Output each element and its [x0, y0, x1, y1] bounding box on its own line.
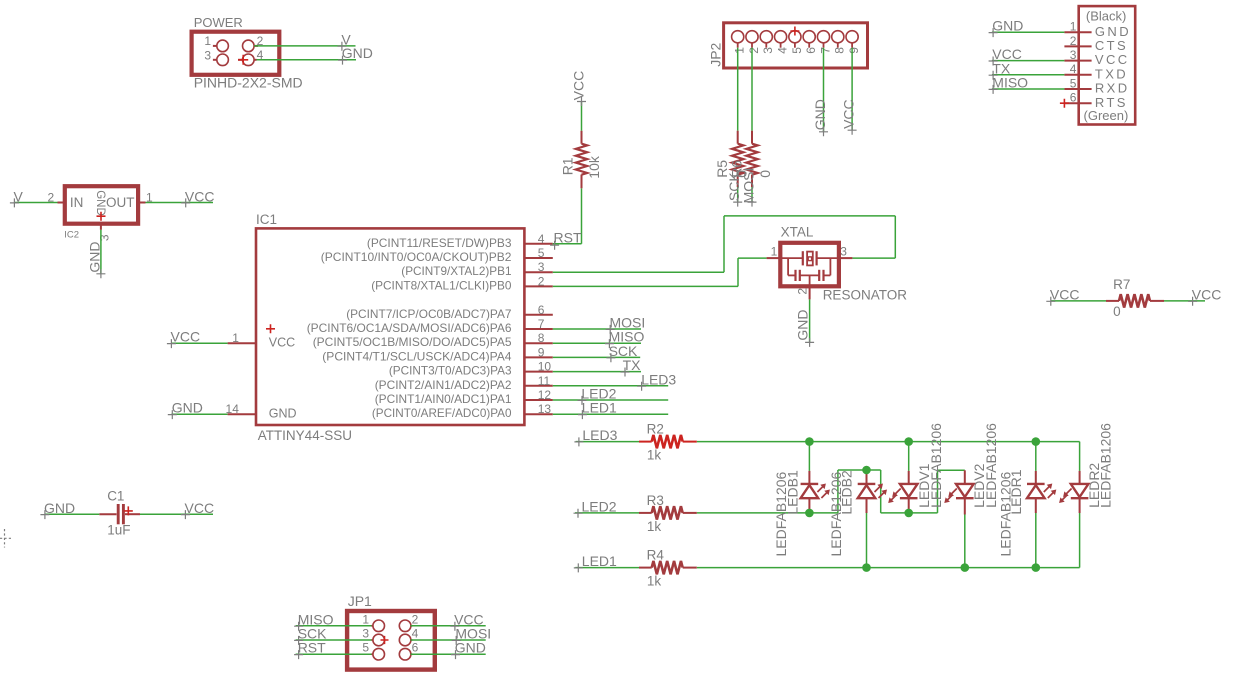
- net label GND below JP2: [812, 99, 828, 136]
- junction LED1/LEDV2: [961, 563, 970, 572]
- junction LED2/LEDB1: [805, 509, 814, 518]
- svg-text:4: 4: [538, 232, 545, 246]
- net label VCC at IC1: [167, 329, 200, 348]
- wire from JP2 pin 2 to R6: [751, 48, 753, 131]
- wire from JP2 pin 1 to R5: [737, 48, 739, 131]
- svg-text:6: 6: [412, 641, 419, 655]
- IC2 pin 2 (IN): [48, 190, 65, 204]
- wire net V from POWER pin 2: [254, 45, 355, 47]
- svg-text:LED3: LED3: [582, 427, 617, 443]
- svg-text:RST: RST: [298, 640, 326, 656]
- svg-text:3: 3: [204, 48, 211, 62]
- svg-text:R1: R1: [559, 157, 575, 175]
- wire net V to IC2 pin 2: [14, 202, 57, 204]
- svg-text:MOSI: MOSI: [741, 168, 757, 204]
- svg-text:GND: GND: [172, 400, 203, 416]
- svg-text:(PCINT2/AIN1/ADC2)PA2: (PCINT2/AIN1/ADC2)PA2: [375, 378, 512, 392]
- wire net VCC to FTDI pin 3: [992, 60, 1065, 62]
- JP2 pin 4: [775, 31, 790, 54]
- svg-text:GND: GND: [44, 500, 75, 516]
- JP1 pin 4: [399, 627, 418, 646]
- sheet origin cross: [0, 529, 12, 548]
- junction LED3/LEDB1: [805, 437, 814, 446]
- svg-text:6: 6: [1070, 91, 1077, 105]
- resistor R4: [639, 548, 697, 589]
- svg-text:1uF: 1uF: [107, 523, 130, 538]
- svg-text:3: 3: [1070, 48, 1077, 62]
- svg-text:OUT: OUT: [106, 195, 135, 210]
- svg-text:3: 3: [840, 245, 847, 259]
- svg-text:3: 3: [538, 260, 545, 274]
- net label LED1 at IC1: [578, 400, 617, 419]
- POWER origin cross: [238, 55, 248, 65]
- junction LED1/LEDR1: [1032, 563, 1041, 572]
- LED LEDV1: [888, 423, 944, 513]
- resistor R6: [728, 131, 773, 187]
- IC2 pin 1 (OUT): [138, 190, 153, 204]
- svg-text:POWER: POWER: [194, 15, 243, 30]
- net label LED1 at rail: [574, 553, 617, 572]
- POWER pin 2: [243, 34, 264, 52]
- JP2 pin 8: [832, 31, 847, 54]
- wire net GND to IC1 pin 14: [171, 413, 227, 415]
- svg-text:(PCINT10/INT0/OC0A/CKOUT)PB2: (PCINT10/INT0/OC0A/CKOUT)PB2: [321, 250, 512, 264]
- JP1 pin 5: [362, 641, 384, 660]
- net label VCC left of R7: [1046, 286, 1079, 305]
- svg-text:6: 6: [804, 47, 818, 54]
- IC1 pin 8 PA5: [313, 331, 553, 349]
- IC1 pin 14 GND: [226, 402, 256, 416]
- svg-text:9: 9: [538, 345, 545, 359]
- svg-text:R3: R3: [647, 493, 664, 508]
- JP2 origin cross: [790, 27, 799, 36]
- LED LEDR2: [1059, 423, 1113, 568]
- IC1 pin 2 PB0: [371, 274, 553, 292]
- svg-text:VCC: VCC: [269, 336, 295, 350]
- svg-text:5: 5: [538, 246, 545, 260]
- net label RST at JP1: [294, 640, 326, 659]
- svg-text:8: 8: [538, 331, 545, 345]
- svg-text:LED1: LED1: [582, 553, 617, 569]
- net label SCK below R5: [726, 172, 742, 207]
- svg-text:0: 0: [757, 170, 773, 178]
- svg-text:1: 1: [1070, 20, 1077, 34]
- net label MISO: [605, 329, 645, 348]
- wire net GND from JP1 pin 6: [411, 653, 486, 655]
- svg-text:LED3: LED3: [641, 371, 676, 387]
- wire net LED1 from IC1 pin 13: [553, 413, 668, 415]
- wire net VCC right of R7: [1164, 300, 1205, 302]
- net label GND below IC2: [86, 241, 105, 278]
- JP2 pin 2: [746, 31, 761, 54]
- LED LEDV2: [944, 423, 999, 568]
- net label VCC below JP2: [841, 99, 857, 134]
- junction LED3/LEDR1: [1032, 437, 1041, 446]
- svg-text:2: 2: [538, 274, 545, 288]
- POWER pin 3: [204, 48, 228, 65]
- LED LEDB2: [828, 470, 887, 568]
- wire net LED2 from IC1 pin 12: [553, 399, 668, 401]
- svg-text:LEDB2: LEDB2: [839, 470, 855, 515]
- svg-text:9: 9: [847, 47, 861, 54]
- net label GND below XTAL: [795, 309, 814, 346]
- capacitor C1: [99, 489, 140, 538]
- wire net MISO to FTDI pin 5: [992, 88, 1065, 90]
- svg-text:1: 1: [362, 612, 369, 626]
- svg-text:C1: C1: [107, 489, 124, 504]
- svg-text:(PCINT8/XTAL1/CLKI)PB0: (PCINT8/XTAL1/CLKI)PB0: [371, 278, 512, 292]
- JP2 pin 3: [760, 31, 775, 54]
- wire net GND from JP2 pin 7: [823, 48, 825, 132]
- wire net SCK to JP1 pin 3: [296, 639, 372, 641]
- svg-text:GND: GND: [269, 406, 297, 420]
- svg-text:VCC: VCC: [1095, 52, 1130, 67]
- svg-text:(PCINT4/T1/SCL/USCK/ADC4)PA4: (PCINT4/T1/SCL/USCK/ADC4)PA4: [322, 349, 512, 363]
- wire net SCK from IC1 pin 9: [553, 356, 640, 358]
- junction LED2/LEDV1: [904, 509, 913, 518]
- wire net TX from IC1 pin 10: [553, 371, 641, 373]
- svg-text:XTAL: XTAL: [781, 224, 814, 239]
- svg-text:3: 3: [362, 627, 369, 641]
- wire net LED1 rail: [575, 567, 1079, 569]
- wire net RST to JP1 pin 5: [296, 653, 372, 655]
- svg-text:IN: IN: [70, 195, 84, 210]
- wire net LED3 from IC1 pin 11: [553, 385, 668, 387]
- net label GND at POWER: [338, 45, 373, 65]
- LED LEDB1: [773, 442, 830, 557]
- net label GND at C1: [40, 500, 75, 519]
- svg-text:R4: R4: [647, 548, 665, 563]
- svg-text:10: 10: [538, 360, 552, 374]
- wire net MISO to JP1 pin 1: [296, 625, 372, 627]
- svg-text:1k: 1k: [647, 448, 662, 463]
- net label MISO at JP1: [294, 611, 333, 630]
- wire below R6: [751, 187, 753, 202]
- svg-text:1: 1: [232, 331, 239, 345]
- JP1 pin 2: [399, 612, 418, 631]
- net label RST: [550, 229, 582, 249]
- FTDI pin 5 RXD: [1064, 76, 1129, 95]
- JP2 pin 5: [789, 31, 804, 54]
- svg-text:1: 1: [771, 245, 778, 259]
- junction LED1/LEDB2: [862, 563, 871, 572]
- svg-text:5: 5: [1070, 76, 1077, 90]
- net label VCC above R1: [571, 71, 587, 106]
- wire net VCC from IC2 pin 1: [146, 202, 214, 204]
- svg-text:2: 2: [1070, 34, 1077, 48]
- svg-text:5: 5: [362, 641, 369, 655]
- svg-text:5: 5: [790, 47, 804, 54]
- net label MOSI below R6: [741, 168, 757, 207]
- XTAL crystal symbol: [780, 251, 839, 265]
- svg-text:(PCINT6/OC1A/SDA/MOSI/ADC6)PA6: (PCINT6/OC1A/SDA/MOSI/ADC6)PA6: [307, 321, 512, 335]
- wire net TX to FTDI pin 4: [992, 74, 1065, 76]
- net label VCC at FTDI: [989, 46, 1022, 65]
- JP1 pin 3: [362, 627, 384, 646]
- wire net MOSI from IC1 pin 7: [553, 328, 641, 330]
- wire net MOSI from JP1 pin 4: [411, 639, 486, 641]
- svg-text:(PCINT7/ICP/OC0B/ADC7)PA7: (PCINT7/ICP/OC0B/ADC7)PA7: [346, 307, 512, 321]
- net label SCK at JP1: [294, 626, 327, 645]
- net label GND at JP1: [451, 640, 486, 659]
- svg-text:7: 7: [538, 317, 545, 331]
- wire net GND from POWER pin 4: [257, 59, 357, 61]
- svg-text:1: 1: [733, 47, 747, 54]
- JP2 pin 9: [846, 31, 861, 54]
- svg-text:(Green): (Green): [1084, 108, 1129, 123]
- wire net XTAL1 from IC1 pin 2 to resonator pin 1: [553, 258, 767, 286]
- svg-text:R2: R2: [647, 422, 664, 437]
- net label VCC at JP1: [450, 611, 483, 630]
- svg-text:1k: 1k: [647, 574, 662, 589]
- wire net MISO from IC1 pin 8: [553, 342, 641, 344]
- IC1 pin 12 PA1: [375, 388, 553, 406]
- net label VCC at IC2: [181, 188, 214, 207]
- wire net VCC right of C1: [140, 513, 213, 515]
- net label V at IC2: [10, 188, 24, 207]
- net label LED3 at IC1: [637, 371, 676, 390]
- svg-text:LEDFAB1206: LEDFAB1206: [928, 423, 944, 508]
- FTDI serial connector (top right): [1079, 6, 1136, 124]
- wire net VCC left of R7: [1051, 300, 1106, 302]
- wire net VCC from JP1 pin 2: [411, 625, 486, 627]
- power header JP POWER (PINHD-2X2-SMD): [192, 15, 280, 75]
- JP1 pin 1: [362, 612, 384, 631]
- net label LED2 at IC1: [578, 386, 617, 405]
- svg-text:GND: GND: [992, 18, 1023, 34]
- wire below R5: [737, 187, 739, 202]
- net label SCK: [606, 343, 638, 362]
- IC1 pin 6 PA7: [346, 303, 553, 321]
- net label TX at FTDI: [989, 60, 1011, 79]
- IC1 VCC and GND pin names inside: [269, 336, 297, 421]
- svg-text:JP2: JP2: [708, 42, 724, 66]
- svg-text:(PCINT1/AIN0/ADC1)PA1: (PCINT1/AIN0/ADC1)PA1: [375, 392, 512, 406]
- net label VCC right of R7: [1188, 286, 1221, 305]
- wire net VCC above R1: [581, 101, 583, 131]
- JP1 pin 6: [399, 641, 418, 660]
- XTAL pin 1: [767, 245, 781, 259]
- svg-text:10k: 10k: [586, 155, 602, 179]
- svg-text:LEDR1: LEDR1: [1008, 469, 1024, 514]
- wire net RST from IC1 pin 4: [553, 188, 582, 244]
- svg-text:LEDB1: LEDB1: [785, 470, 801, 515]
- wire net LED3 rail: [576, 441, 1080, 443]
- POWER pin 4: [238, 48, 264, 66]
- IC1 pin 5 PB2: [321, 246, 553, 264]
- svg-text:RTS: RTS: [1095, 95, 1128, 110]
- net label TX: [621, 357, 642, 376]
- resistor R1: [559, 131, 602, 189]
- FTDI pin 4 TXD: [1064, 62, 1128, 81]
- connector JP2: [708, 23, 868, 68]
- svg-text:VCC: VCC: [171, 329, 201, 345]
- resonator XTAL: [780, 224, 907, 302]
- wire net LED2 rail with jogs: [575, 470, 965, 513]
- XTAL internal capacitors to pin 2: [788, 258, 830, 286]
- svg-text:3: 3: [761, 47, 775, 54]
- wire net GND to FTDI pin 1: [992, 31, 1065, 33]
- svg-text:VCC: VCC: [185, 188, 215, 204]
- svg-text:12: 12: [538, 388, 552, 402]
- svg-text:VCC: VCC: [1192, 286, 1222, 302]
- net label MOSI: [606, 315, 646, 334]
- net label MISO at FTDI: [989, 75, 1029, 94]
- wire net VCC to IC1 pin 1: [171, 342, 228, 344]
- svg-text:VCC: VCC: [841, 99, 857, 129]
- resistor R2: [639, 422, 697, 463]
- svg-text:7: 7: [818, 47, 832, 54]
- svg-text:VCC: VCC: [571, 71, 587, 101]
- svg-text:PINHD-2X2-SMD: PINHD-2X2-SMD: [194, 75, 303, 91]
- microcontroller IC1 ATTINY44-SSU: [256, 212, 524, 443]
- svg-text:4: 4: [1070, 62, 1077, 76]
- IC1 pin 13 PA0: [372, 402, 553, 420]
- IC1 pin 10 PA3: [389, 360, 553, 378]
- svg-text:(PCINT11/RESET/DW)PB3: (PCINT11/RESET/DW)PB3: [367, 236, 512, 250]
- JP2 pin 1: [732, 31, 747, 54]
- net label GND at FTDI: [989, 18, 1024, 37]
- IC1 pin 11 PA2: [375, 374, 553, 392]
- svg-text:JP1: JP1: [348, 593, 372, 609]
- svg-text:11: 11: [538, 374, 551, 388]
- junction LED3/LEDV1: [904, 437, 913, 446]
- svg-text:GND: GND: [94, 190, 106, 216]
- net label VCC at C1: [181, 500, 214, 519]
- voltage regulator IC2: [64, 186, 138, 241]
- svg-text:1k: 1k: [647, 519, 662, 534]
- svg-text:8: 8: [833, 47, 847, 54]
- svg-text:RXD: RXD: [1095, 81, 1130, 96]
- IC1 pin 7 PA6: [307, 317, 553, 335]
- resistor R3: [639, 493, 697, 534]
- svg-text:LEDFAB1206: LEDFAB1206: [1097, 423, 1113, 508]
- svg-text:IC2: IC2: [64, 230, 79, 241]
- svg-text:GND: GND: [812, 99, 828, 130]
- C1 origin cross: [124, 506, 133, 515]
- FTDI pin 6 RTS: [1064, 91, 1127, 110]
- svg-text:(PCINT5/OC1B/MISO/DO/ADC5)PA5: (PCINT5/OC1B/MISO/DO/ADC5)PA5: [313, 335, 512, 349]
- svg-text:VCC: VCC: [185, 500, 215, 516]
- junction LED2/LEDB2: [862, 466, 871, 475]
- JP2 pin 6: [803, 31, 818, 54]
- svg-text:(Black): (Black): [1086, 9, 1126, 24]
- XTAL pin 3: [839, 245, 853, 259]
- svg-text:2: 2: [795, 288, 809, 295]
- svg-text:(PCINT9/XTAL2)PB1: (PCINT9/XTAL2)PB1: [401, 264, 512, 278]
- connector JP1 (ISP header): [347, 593, 435, 670]
- svg-text:13: 13: [538, 402, 552, 416]
- IC2 pin 3 (GND): [98, 224, 112, 241]
- FTDI pin 3 VCC: [1064, 48, 1129, 67]
- IC1 pin 1 VCC: [228, 331, 256, 345]
- net label GND at IC1: [168, 400, 203, 419]
- svg-text:LED2: LED2: [582, 498, 617, 514]
- svg-text:RESONATOR: RESONATOR: [823, 287, 908, 302]
- svg-text:4: 4: [776, 47, 790, 54]
- svg-text:6: 6: [538, 303, 545, 317]
- LED LEDR1: [998, 442, 1057, 568]
- FTDI origin cross at RTS: [1060, 99, 1069, 108]
- resistor R5: [714, 131, 749, 187]
- svg-text:CTS: CTS: [1095, 38, 1128, 53]
- net label LED3 at rail: [574, 427, 617, 446]
- svg-text:(PCINT0/AREF/ADC0)PA0: (PCINT0/AREF/ADC0)PA0: [372, 406, 512, 420]
- svg-text:RST: RST: [554, 229, 582, 245]
- wire net VCC from JP2 pin 9: [851, 48, 853, 130]
- svg-text:GND: GND: [1095, 24, 1131, 39]
- wire net GND left of C1: [45, 513, 99, 515]
- IC1 pin 4 PB3: [367, 232, 553, 250]
- JP2 pin 7: [817, 31, 832, 54]
- svg-text:2: 2: [412, 612, 419, 626]
- net label V: [337, 31, 351, 50]
- svg-text:VCC: VCC: [1050, 286, 1080, 302]
- svg-text:4: 4: [412, 627, 419, 641]
- IC1 pin 9 PA4: [322, 345, 553, 363]
- svg-text:GND: GND: [86, 241, 102, 272]
- IC1 origin cross: [266, 324, 275, 333]
- FTDI pin 2 CTS: [1064, 34, 1128, 53]
- svg-text:ATTINY44-SSU: ATTINY44-SSU: [258, 428, 352, 443]
- POWER pin 1: [204, 34, 228, 52]
- svg-text:1: 1: [204, 34, 211, 48]
- resistor R7: [1106, 277, 1164, 319]
- svg-text:MISO: MISO: [992, 75, 1028, 91]
- IC2 origin cross: [97, 212, 106, 221]
- svg-text:0: 0: [1113, 304, 1121, 319]
- svg-text:GND: GND: [795, 309, 811, 340]
- FTDI pin 1 GND: [1064, 20, 1131, 39]
- svg-text:TXD: TXD: [1095, 66, 1128, 81]
- svg-text:(PCINT3/T0/ADC3)PA3: (PCINT3/T0/ADC3)PA3: [389, 364, 512, 378]
- XTAL pin 2: [795, 286, 809, 299]
- JP1 origin cross: [381, 636, 389, 644]
- wire net XTAL2 from IC1 pin 3 to resonator pin 3: [553, 216, 896, 272]
- svg-text:3: 3: [98, 234, 112, 241]
- svg-text:R7: R7: [1113, 277, 1130, 292]
- svg-text:2: 2: [747, 47, 761, 54]
- net label MOSI at JP1: [452, 626, 491, 645]
- svg-text:LED1: LED1: [582, 400, 617, 416]
- wire net GND from IC2 pin 3: [100, 230, 102, 274]
- wire net GND below XTAL: [809, 299, 811, 342]
- svg-text:IC1: IC1: [256, 212, 277, 227]
- svg-text:GND: GND: [455, 640, 486, 656]
- svg-text:GND: GND: [342, 45, 373, 61]
- net label LED2 at rail: [574, 498, 617, 517]
- IC1 pin 3 PB1: [401, 260, 553, 278]
